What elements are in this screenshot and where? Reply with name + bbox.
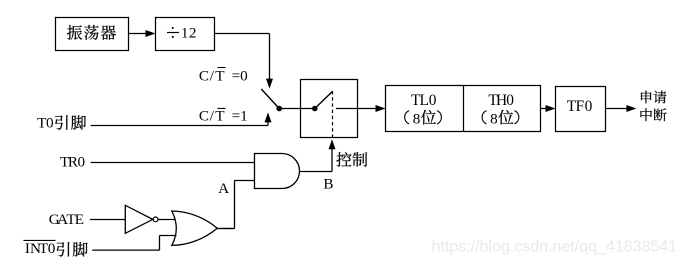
svg-text:T: T: [215, 67, 225, 84]
svg-text:0: 0: [506, 92, 514, 109]
wire TF0 to interrupt: [605, 108, 628, 110]
svg-text:8: 8: [490, 110, 498, 127]
wire INT0: [92, 249, 159, 251]
control switch box: [301, 80, 358, 138]
INT0 overline: [23, 239, 55, 241]
svg-text:0: 0: [429, 92, 437, 109]
wire oscillator to div12: [129, 33, 148, 35]
svg-text:F: F: [576, 98, 585, 115]
svg-text:C: C: [199, 67, 209, 84]
wire B input: [235, 180, 255, 182]
wire div12 out: [215, 33, 270, 35]
svg-text:2: 2: [189, 24, 197, 41]
svg-text:B: B: [323, 176, 333, 193]
TF0 box: [556, 87, 606, 132]
dashed control line: [332, 91, 334, 137]
label (8bit) TH0: [482, 111, 486, 124]
wire GATE: [90, 219, 125, 221]
svg-text:0: 0: [585, 98, 593, 115]
label interrupt request 申请中断: [641, 91, 666, 104]
divide sign: [167, 32, 179, 34]
label control 控制: [336, 152, 351, 167]
wire NOT to OR: [158, 219, 174, 221]
wire T0 pin: [91, 125, 268, 127]
svg-text:0: 0: [77, 154, 85, 171]
svg-text:=: =: [232, 107, 241, 124]
junction dot: run-control wiper pivot: [312, 106, 318, 112]
wire OR out to A: [217, 228, 234, 230]
svg-text:0: 0: [46, 114, 54, 131]
divide-by-12 box: [156, 18, 215, 51]
svg-text:8: 8: [413, 110, 421, 127]
svg-text:1: 1: [181, 24, 189, 41]
switch wiper control: [315, 91, 333, 108]
svg-text:1: 1: [240, 107, 248, 124]
svg-text:0: 0: [240, 67, 248, 84]
not gate: [125, 205, 153, 233]
TL0 TH0 register boxes: [386, 86, 541, 132]
svg-text:=: =: [232, 67, 241, 84]
label (8bit) TL0: [405, 111, 409, 124]
and gate: [255, 154, 300, 189]
wire into control box: [279, 108, 315, 110]
svg-text:https://blog.csdn.net/qq_41838: https://blog.csdn.net/qq_41838541: [432, 239, 678, 256]
wire AND out to control arrow: [300, 171, 333, 173]
switch wiper C/T select: [261, 89, 279, 109]
junction dot: C/T wiper pivot: [276, 106, 282, 112]
not gate bubble: [153, 217, 158, 222]
wire box to TL0: [336, 108, 377, 110]
svg-text:T: T: [215, 107, 225, 124]
svg-text:A: A: [218, 180, 229, 197]
svg-text:L: L: [419, 92, 428, 109]
or gate: [172, 211, 218, 245]
wire TR0: [91, 162, 255, 164]
svg-text:0: 0: [48, 240, 56, 257]
oscillator box 振荡器: [56, 18, 129, 51]
svg-text:E: E: [75, 211, 84, 228]
wire TH0 to TF0: [541, 108, 548, 110]
svg-text:C: C: [199, 107, 209, 124]
